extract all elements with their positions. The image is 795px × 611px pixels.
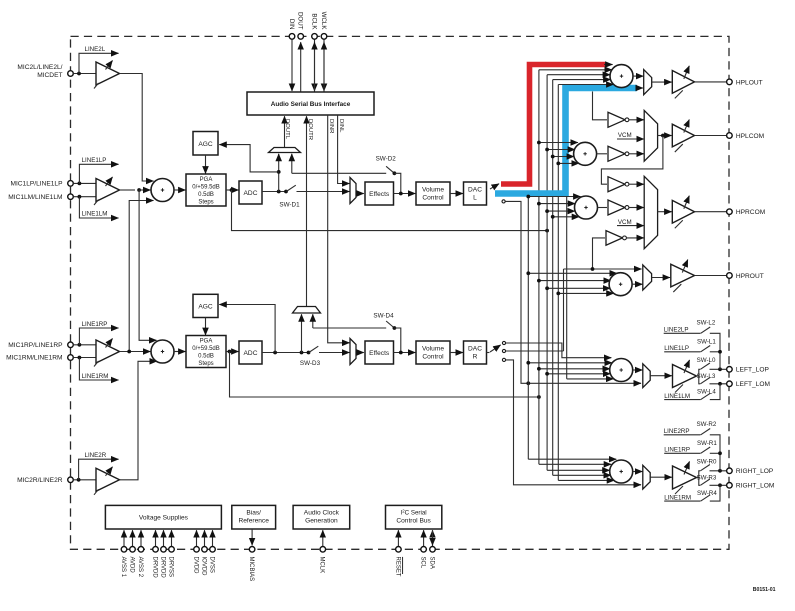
svg-text:DOUT: DOUT	[297, 12, 304, 30]
svg-text:DOUTR: DOUTR	[307, 119, 313, 140]
svg-text:RESET: RESET	[394, 557, 400, 577]
svg-text:LEFT_LOM: LEFT_LOM	[736, 381, 770, 388]
svg-text:0/+59.5dB: 0/+59.5dB	[192, 185, 220, 191]
svg-text:HPLCOM: HPLCOM	[736, 133, 764, 140]
svg-text:DAC: DAC	[468, 346, 482, 353]
svg-text:DIN: DIN	[288, 19, 295, 30]
svg-text:Control: Control	[422, 354, 444, 361]
svg-text:SW-R0: SW-R0	[697, 458, 717, 465]
svg-text:L: L	[473, 195, 477, 202]
svg-text:Effects: Effects	[369, 350, 390, 357]
svg-text:Effects: Effects	[369, 191, 390, 198]
svg-text:SW-L4: SW-L4	[697, 388, 716, 395]
svg-text:MIC1RM/LINE1RM: MIC1RM/LINE1RM	[6, 355, 62, 362]
svg-text:SDA: SDA	[428, 557, 434, 569]
svg-text:Audio Clock: Audio Clock	[304, 510, 340, 517]
svg-text:DRVSS: DRVSS	[167, 557, 173, 578]
svg-text:PGA: PGA	[200, 177, 213, 183]
svg-text:HPLOUT: HPLOUT	[736, 79, 763, 86]
svg-text:RIGHT_LOP: RIGHT_LOP	[736, 468, 774, 475]
svg-text:LINE2R: LINE2R	[85, 452, 107, 459]
svg-text:LINE1LP: LINE1LP	[664, 345, 689, 352]
svg-text:Generation: Generation	[305, 518, 338, 525]
svg-text:AVDD: AVDD	[128, 557, 134, 574]
svg-text:MCLK: MCLK	[319, 557, 325, 574]
svg-text:LINE2RP: LINE2RP	[664, 428, 690, 435]
svg-text:SW-L0: SW-L0	[697, 357, 716, 364]
svg-text:Steps: Steps	[198, 199, 213, 205]
svg-text:DAC: DAC	[468, 187, 482, 194]
svg-text:0.5dB: 0.5dB	[198, 354, 214, 360]
svg-text:MIC1LP/LINE1LP: MIC1LP/LINE1LP	[10, 181, 63, 188]
svg-text:Reference: Reference	[238, 518, 269, 525]
svg-text:Control Bus: Control Bus	[396, 518, 431, 525]
svg-text:MICDET: MICDET	[37, 72, 62, 79]
svg-text:R: R	[473, 354, 478, 361]
svg-text:DVSS: DVSS	[208, 557, 214, 573]
svg-text:MIC2L/LINE2L/: MIC2L/LINE2L/	[17, 64, 62, 71]
svg-text:LINE1LP: LINE1LP	[82, 157, 107, 164]
svg-text:Volume: Volume	[422, 187, 444, 194]
svg-text:SW-L2: SW-L2	[697, 320, 716, 327]
svg-text:DINR: DINR	[328, 119, 334, 133]
svg-text:VCM: VCM	[618, 132, 632, 139]
svg-text:DRVDD: DRVDD	[159, 557, 165, 579]
svg-text:MICBIAS: MICBIAS	[248, 557, 254, 582]
svg-text:SW-L3: SW-L3	[697, 373, 716, 380]
svg-text:AGC: AGC	[198, 141, 213, 148]
svg-text:BCLK: BCLK	[310, 13, 317, 30]
svg-text:Steps: Steps	[198, 361, 213, 367]
svg-text:PGA: PGA	[200, 339, 213, 345]
svg-text:IOVDD: IOVDD	[200, 557, 206, 577]
svg-text:MIC1RP/LINE1RP: MIC1RP/LINE1RP	[8, 342, 63, 349]
svg-text:WCLK: WCLK	[320, 12, 327, 31]
svg-text:ADC: ADC	[244, 350, 258, 357]
svg-text:SW-D2: SW-D2	[376, 155, 397, 162]
svg-text:RIGHT_LOM: RIGHT_LOM	[736, 483, 774, 490]
svg-text:Audio Serial Bus Interface: Audio Serial Bus Interface	[271, 101, 351, 108]
svg-text:SW-D1: SW-D1	[279, 201, 300, 208]
svg-text:MIC2R/LINE2R: MIC2R/LINE2R	[17, 477, 63, 484]
svg-text:LINE2L: LINE2L	[85, 46, 106, 53]
svg-text:B0151-01: B0151-01	[753, 587, 776, 593]
svg-text:SW-L1: SW-L1	[697, 339, 716, 346]
svg-text:LEFT_LOP: LEFT_LOP	[736, 367, 770, 374]
svg-text:SW-D4: SW-D4	[373, 313, 394, 320]
svg-text:AVSS 2: AVSS 2	[137, 557, 143, 578]
svg-text:SW-R3: SW-R3	[697, 474, 717, 481]
svg-text:ADC: ADC	[244, 190, 258, 197]
svg-text:LINE1RP: LINE1RP	[82, 321, 108, 328]
svg-text:LINE1LM: LINE1LM	[82, 211, 108, 218]
svg-text:DRVDD: DRVDD	[151, 557, 157, 579]
svg-text:Control: Control	[422, 195, 444, 202]
svg-text:SW-R4: SW-R4	[697, 490, 717, 497]
svg-text:SW-R2: SW-R2	[697, 421, 717, 428]
svg-text:LINE2LP: LINE2LP	[664, 327, 689, 334]
svg-text:DINL: DINL	[338, 119, 344, 133]
svg-text:LINE1LM: LINE1LM	[664, 393, 690, 400]
svg-text:SW-R1: SW-R1	[697, 440, 717, 447]
svg-text:HPROUT: HPROUT	[736, 273, 764, 280]
svg-text:DOUTL: DOUTL	[284, 119, 290, 140]
svg-text:AVSS 1: AVSS 1	[120, 557, 126, 578]
svg-text:0/+59.5dB: 0/+59.5dB	[192, 346, 220, 352]
svg-text:LINE1RP: LINE1RP	[664, 447, 690, 454]
svg-text:VCM: VCM	[618, 219, 632, 226]
svg-text:MIC1LM/LINE1LM: MIC1LM/LINE1LM	[8, 194, 62, 201]
svg-text:SCL: SCL	[420, 557, 426, 569]
svg-text:Bias/: Bias/	[246, 510, 261, 517]
svg-text:Voltage Supplies: Voltage Supplies	[139, 515, 189, 522]
svg-text:SW-D3: SW-D3	[300, 360, 321, 367]
svg-text:HPRCOM: HPRCOM	[736, 209, 765, 216]
svg-text:LINE1RM: LINE1RM	[82, 373, 109, 380]
svg-text:Volume: Volume	[422, 346, 444, 353]
svg-text:AGC: AGC	[198, 304, 213, 311]
svg-text:0.5dB: 0.5dB	[198, 192, 214, 198]
svg-text:DVDD: DVDD	[192, 557, 198, 575]
svg-text:I2C Serial: I2C Serial	[400, 508, 426, 517]
svg-text:LINE1RM: LINE1RM	[664, 495, 691, 502]
